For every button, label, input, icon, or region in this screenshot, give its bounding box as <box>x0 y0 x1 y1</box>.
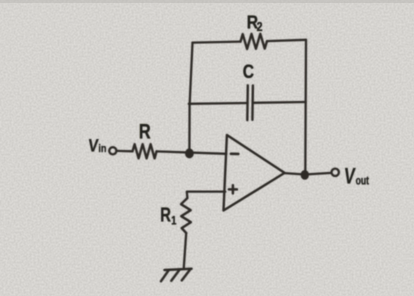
capacitor C <box>247 85 253 120</box>
wire: non-inverting input to R1 <box>187 192 226 198</box>
wire: top feedback right segment <box>267 40 306 41</box>
wire: capacitor left segment <box>189 102 248 105</box>
wire: right feedback vertical <box>304 40 307 175</box>
resistor R1 <box>181 198 191 233</box>
svg-text:V: V <box>87 135 99 156</box>
svg-text:out: out <box>356 175 370 188</box>
op-amp U1 <box>224 135 285 211</box>
wire: top feedback left segment <box>193 42 241 43</box>
wire: R1 to ground <box>184 233 186 268</box>
svg-text:C: C <box>243 60 254 82</box>
wire: op-amp output <box>285 173 332 175</box>
terminal Vin <box>109 147 116 154</box>
wire: capacitor right segment <box>253 101 306 104</box>
op-amp plus sign <box>229 185 237 193</box>
ground <box>161 269 192 282</box>
resistor R <box>133 144 157 158</box>
wire: R to inverting input <box>157 151 227 153</box>
svg-text:R: R <box>139 120 151 143</box>
svg-text:in: in <box>98 143 106 155</box>
node: inverting input junction <box>185 148 194 158</box>
svg-text:R: R <box>160 203 171 226</box>
wire: left feedback vertical <box>189 43 192 152</box>
svg-text:1: 1 <box>171 216 176 228</box>
op-amp minus sign <box>231 153 238 156</box>
wire: Vin to R <box>117 150 133 153</box>
svg-text:2: 2 <box>257 20 263 34</box>
terminal Vout <box>332 169 339 176</box>
resistor R2 <box>241 34 268 49</box>
node: output junction <box>301 170 309 180</box>
